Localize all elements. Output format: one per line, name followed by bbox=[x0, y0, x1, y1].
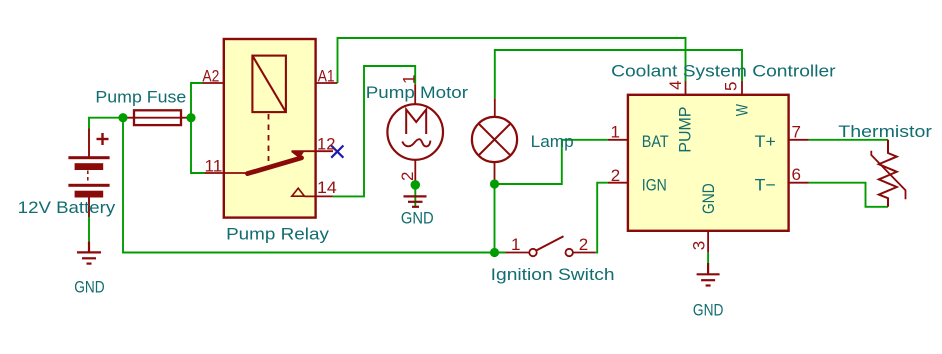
pump motor M1 bbox=[387, 104, 443, 160]
controller pin 6 T- bbox=[789, 182, 809, 184]
svg-text:BAT: BAT bbox=[642, 132, 669, 151]
svg-text:Lamp: Lamp bbox=[531, 132, 574, 151]
svg-text:T+: T+ bbox=[755, 132, 776, 151]
wire T- to thermistor bottom bbox=[809, 183, 888, 207]
svg-text:14: 14 bbox=[317, 178, 337, 197]
motor pin 2 bbox=[414, 160, 416, 181]
svg-text:12V Battery: 12V Battery bbox=[18, 198, 116, 217]
svg-text:Pump Motor: Pump Motor bbox=[366, 83, 469, 102]
relay pin 11 bbox=[205, 172, 248, 174]
wire battery top to fuse bbox=[89, 118, 123, 129]
svg-text:2: 2 bbox=[611, 166, 620, 185]
relay coil bbox=[252, 56, 286, 113]
relay pin 14 bbox=[305, 195, 333, 197]
svg-text:A1: A1 bbox=[318, 67, 335, 86]
wire lamp top to controller pin 5 bbox=[495, 50, 742, 98]
svg-text:W: W bbox=[732, 104, 751, 116]
wire T+ to thermistor top bbox=[809, 139, 888, 141]
svg-text:PUMP: PUMP bbox=[675, 107, 694, 153]
svg-text:12: 12 bbox=[317, 134, 335, 153]
relay pin 14 contact triangle bbox=[292, 188, 305, 196]
thermistor slash bbox=[871, 151, 905, 200]
relay pin A2 bbox=[203, 82, 224, 84]
controller pin 4 PUMP bbox=[685, 81, 687, 95]
junction dot fuse right bbox=[186, 113, 195, 122]
svg-text:Coolant System Controller: Coolant System Controller bbox=[611, 62, 836, 81]
svg-text:GND: GND bbox=[693, 301, 724, 320]
ignition switch SW1 bbox=[506, 252, 530, 254]
junction dot rail bbox=[490, 248, 499, 257]
wire lamp bottom to BAT pin bbox=[495, 140, 608, 184]
junction dot motor gnd bbox=[411, 180, 421, 190]
controller pin 7 T+ bbox=[789, 139, 809, 141]
svg-text:11: 11 bbox=[205, 156, 223, 175]
svg-text:GND: GND bbox=[401, 209, 434, 228]
svg-text:GND: GND bbox=[699, 183, 718, 214]
wire motor pin 2 to gnd bbox=[414, 181, 416, 206]
svg-text:1: 1 bbox=[611, 122, 620, 141]
wire ignition switch pin 2 to IGN pin bbox=[596, 183, 608, 253]
wire vertical A2 to pin 11 bbox=[191, 83, 205, 173]
wire battery bottom to gnd bbox=[88, 217, 90, 242]
svg-text:GND: GND bbox=[74, 277, 104, 296]
svg-text:2: 2 bbox=[398, 172, 417, 181]
controller pin 5 W bbox=[741, 81, 743, 95]
wire controller pin 3 to gnd bbox=[707, 252, 709, 263]
svg-text:2: 2 bbox=[579, 235, 588, 254]
svg-text:6: 6 bbox=[792, 165, 801, 184]
svg-text:Thermistor: Thermistor bbox=[838, 122, 932, 141]
relay pin A1 bbox=[316, 82, 338, 84]
controller pin 3 GND bbox=[707, 231, 709, 253]
wire relay A1 to controller pin 4 bbox=[338, 38, 686, 83]
svg-text:T−: T− bbox=[755, 175, 776, 194]
motor pin 1 bbox=[414, 84, 416, 104]
controller U1 body bbox=[628, 95, 789, 231]
svg-text:3: 3 bbox=[690, 241, 709, 250]
svg-text:A2: A2 bbox=[202, 67, 219, 86]
svg-text:5: 5 bbox=[722, 82, 741, 91]
junction dot fuse left bbox=[118, 113, 127, 122]
battery BT1 bbox=[68, 129, 109, 217]
junction dot lamp bottom bbox=[490, 179, 499, 188]
motor tilde glyph bbox=[402, 139, 430, 146]
motor M glyph bbox=[406, 110, 426, 135]
wire lamp bottom to rail bbox=[494, 182, 496, 252]
wire bottom rail from fuse junction to ignition switch bbox=[123, 118, 506, 253]
svg-text:Pump Relay: Pump Relay bbox=[226, 225, 329, 244]
lamp pin bottom bbox=[494, 162, 496, 182]
ground below battery bbox=[77, 241, 101, 263]
svg-text:1: 1 bbox=[511, 235, 520, 254]
relay switch blade bbox=[248, 158, 302, 174]
controller pin 1 BAT bbox=[608, 139, 628, 141]
svg-text:Ignition Switch: Ignition Switch bbox=[491, 265, 615, 284]
thermistor TH1 zigzag bbox=[879, 140, 897, 207]
relay K1 body bbox=[224, 39, 316, 218]
svg-text:7: 7 bbox=[792, 123, 801, 142]
svg-text:4: 4 bbox=[666, 80, 685, 89]
svg-text:Pump Fuse: Pump Fuse bbox=[95, 87, 186, 106]
ground below controller bbox=[697, 263, 720, 286]
controller pin 2 IGN bbox=[608, 182, 628, 184]
relay pin 12 bbox=[292, 150, 334, 152]
lamp DS1 bbox=[472, 117, 517, 162]
no-connect X on pin 12 bbox=[331, 146, 343, 158]
relay dashed link bbox=[268, 114, 270, 161]
fuse F1 bbox=[123, 110, 191, 125]
wire relay pin 14 to motor pin 1 bbox=[333, 66, 415, 196]
ground below motor bbox=[404, 196, 427, 206]
svg-text:IGN: IGN bbox=[642, 175, 667, 194]
lamp pin top bbox=[494, 98, 496, 117]
